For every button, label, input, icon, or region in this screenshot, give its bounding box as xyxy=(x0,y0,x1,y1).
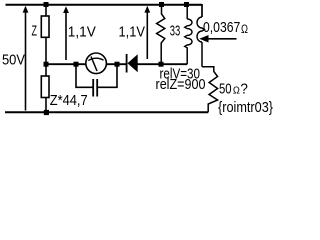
node junction B (cap loop left) xyxy=(74,62,79,67)
svg-text:50: 50 xyxy=(219,81,232,98)
node junction C (cap loop right) xyxy=(115,62,120,67)
capacitor plates xyxy=(93,79,97,97)
svg-text:0,0367: 0,0367 xyxy=(203,19,240,36)
svg-text:relZ=900: relZ=900 xyxy=(156,76,206,93)
svg-text:50V: 50V xyxy=(2,52,25,69)
node junction D (mid right) xyxy=(159,62,164,67)
node junction top of relay coil xyxy=(184,2,189,7)
wire mid rail segment meter-diode xyxy=(106,63,126,65)
node junction bottom of Z*44,7 xyxy=(44,110,49,115)
wire capacitor loop right xyxy=(97,64,117,87)
svg-text:Ω: Ω xyxy=(241,22,248,36)
wire bottom rail xyxy=(5,111,208,113)
svg-text:33: 33 xyxy=(170,23,181,40)
source arrow 50V xyxy=(23,6,29,111)
svg-text:Z*44,7: Z*44,7 xyxy=(50,92,88,109)
wire top rail xyxy=(6,4,202,6)
svg-text:{roimtr03}: {roimtr03} xyxy=(218,99,273,116)
wire top-right bend xyxy=(187,5,203,17)
resistor Z (box) xyxy=(41,5,49,65)
diode D1 xyxy=(127,54,138,73)
svg-text:1,1V: 1,1V xyxy=(119,24,146,41)
impedance arrow 0,0367 ohm xyxy=(199,35,236,43)
svg-text:Ω: Ω xyxy=(233,86,240,97)
node junction A (mid left) xyxy=(44,62,49,67)
relay coil primary (left winding) xyxy=(185,5,192,65)
voltage arrow 1,1V (right) xyxy=(144,6,150,59)
resistor 50 ohm? (zigzag) xyxy=(202,67,218,113)
voltage arrow 1,1V (left) xyxy=(63,6,69,60)
resistor Z*44,7 (box) xyxy=(41,66,49,112)
wire mid rail segment A-B xyxy=(46,63,86,65)
wire capacitor loop left xyxy=(76,64,93,87)
meter M1 (circle with needle and scale arc) xyxy=(86,53,107,74)
node junction top of Z xyxy=(44,2,49,7)
resistor 33 (zigzag) xyxy=(157,5,165,65)
svg-text:1,1V: 1,1V xyxy=(68,24,96,41)
relay coil secondary (right winding) xyxy=(197,17,204,67)
svg-text:?: ? xyxy=(240,81,248,98)
svg-text:Z: Z xyxy=(32,23,38,40)
wire mid rail segment diode-D-coil xyxy=(138,63,188,65)
node junction top of 33 xyxy=(159,2,164,7)
